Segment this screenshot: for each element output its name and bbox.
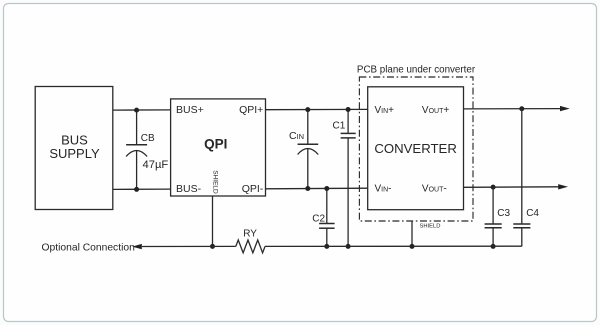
svg-text:BUS-: BUS- — [176, 183, 202, 195]
junction node CB bottom — [134, 187, 139, 192]
converter shield stub — [412, 221, 440, 246]
svg-text:Optional Connection: Optional Connection — [42, 242, 136, 253]
junction node CB top — [134, 108, 139, 113]
svg-text:RY: RY — [243, 228, 257, 239]
junction node QPI shield — [210, 244, 215, 249]
svg-text:BUS+: BUS+ — [176, 104, 204, 116]
wire QPI+ to converter VIN+ — [266, 108, 368, 110]
junction node C2 top — [324, 186, 329, 191]
junction node C3 bottom — [491, 244, 496, 249]
capacitor C2 — [312, 189, 334, 247]
junction node C1 bottom — [346, 244, 351, 249]
svg-text:C3: C3 — [497, 208, 510, 219]
junction node CIN top — [305, 107, 310, 112]
wire BUS+ : bus supply to QPI BUS+ — [113, 109, 171, 111]
svg-text:CONVERTER: CONVERTER — [374, 141, 457, 156]
junction node C3 top — [491, 185, 496, 190]
capacitor CB — [126, 110, 168, 189]
svg-text:C1: C1 — [333, 121, 346, 132]
PCB plane dashed outline — [357, 65, 476, 222]
junction node C4 top — [519, 106, 524, 111]
capacitor C3 — [485, 187, 511, 246]
wire QPI- to converter VIN- — [266, 187, 368, 190]
shield rail wire — [265, 245, 522, 247]
svg-text:QPI: QPI — [204, 137, 227, 152]
resistor RY — [236, 228, 265, 252]
svg-text:QPI+: QPI+ — [239, 104, 263, 116]
svg-text:PCB plane under converter: PCB plane under converter — [357, 65, 476, 76]
wire VOUT- output — [464, 184, 569, 189]
svg-text:SUPPLY: SUPPLY — [49, 146, 100, 161]
wire BUS- : bus supply to QPI BUS- — [113, 188, 171, 190]
converter module U2 — [368, 87, 464, 210]
junction node C2 bottom — [324, 244, 329, 249]
junction node C1 top — [346, 107, 351, 112]
capacitor C1 — [333, 110, 356, 247]
capacitor C4 — [513, 109, 539, 247]
svg-text:CB: CB — [141, 133, 155, 144]
junction node converter shield — [410, 244, 415, 249]
svg-text:CIN: CIN — [289, 130, 304, 142]
svg-text:C2: C2 — [312, 213, 325, 224]
capacitor CIN — [289, 110, 318, 189]
wire VOUT+ output — [464, 106, 570, 111]
junction node CIN bottom — [305, 186, 310, 191]
optional connection wire with left arrow — [42, 242, 236, 253]
QPI module U1 — [171, 99, 266, 196]
svg-text:47µF: 47µF — [143, 159, 169, 171]
svg-text:SHIELD: SHIELD — [212, 170, 219, 194]
svg-text:C4: C4 — [526, 208, 539, 219]
svg-text:QPI-: QPI- — [242, 183, 264, 195]
bus supply box — [35, 87, 113, 210]
svg-text:SHIELD: SHIELD — [420, 224, 441, 230]
QPI shield stub — [212, 196, 214, 246]
